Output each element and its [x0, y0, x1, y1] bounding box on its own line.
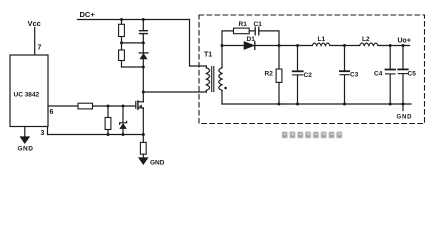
- svg-text:C1: C1: [254, 21, 263, 28]
- wire cap branch top: [142, 20, 144, 31]
- wire cap to cross: [142, 34, 144, 53]
- wire pin3 stub: [47, 127, 49, 135]
- svg-text:T1: T1: [204, 52, 212, 59]
- svg-text:R2: R2: [265, 71, 274, 78]
- wire left branch bottom: [121, 61, 123, 68]
- capacitor C3: [340, 70, 349, 72]
- wire sense to gnd: [142, 154, 144, 158]
- ground under IC: [21, 137, 29, 143]
- wire Vcc to pin 7: [34, 28, 36, 56]
- wire output gnd stub: [402, 104, 404, 111]
- node cross mid left: [120, 41, 123, 44]
- resistor R1: [234, 28, 250, 34]
- svg-text:DC+: DC+: [80, 10, 96, 19]
- wire pulldown bottom: [107, 130, 109, 135]
- svg-text:GND: GND: [18, 146, 34, 153]
- node snubber right top: [142, 18, 145, 21]
- wire secondary top: [221, 46, 223, 68]
- capacitor C2: [293, 70, 303, 72]
- node drain-transformer junction: [142, 91, 145, 94]
- node secondary polarity dot: [224, 87, 227, 90]
- transistor Q1 MOSFET: [135, 102, 137, 109]
- wire L1 to C3 node: [330, 45, 360, 47]
- node rail junction A: [107, 133, 110, 136]
- svg-text:Vcc: Vcc: [28, 19, 41, 28]
- wire clamp cross mid: [122, 42, 144, 44]
- wire left branch top: [121, 20, 123, 25]
- svg-text:Uo+: Uo+: [398, 38, 411, 45]
- inductor L1: [312, 43, 330, 45]
- wire IC gnd stub: [24, 127, 26, 138]
- wire L2 to output: [378, 45, 410, 47]
- diode D1: [244, 42, 254, 50]
- wire drain vertical: [142, 67, 144, 102]
- wire pin6 gate drive: [48, 105, 78, 107]
- svg-text:C4: C4: [374, 71, 383, 78]
- capacitor C5: [398, 68, 407, 70]
- resistor R gate pulldown: [105, 118, 111, 130]
- wire DC+ down right: [190, 20, 207, 67]
- wire C2 bottom: [297, 75, 299, 104]
- wire C5 top: [402, 46, 404, 69]
- resistor R current sense: [140, 142, 146, 154]
- wire diode bottom: [142, 59, 144, 67]
- wire source down: [142, 108, 144, 135]
- wire C3 top: [344, 46, 346, 71]
- wire left branch mid: [121, 37, 123, 51]
- node R2 bottom junction: [278, 103, 281, 106]
- svg-text:6: 6: [50, 109, 54, 116]
- wire sense rail: [48, 134, 144, 136]
- node rectifier input junction: [221, 44, 224, 47]
- wire R1 to C1: [249, 30, 255, 32]
- wire gate: [93, 105, 136, 107]
- node C2 bottom junction: [296, 103, 299, 106]
- wire C4 bottom: [389, 74, 391, 104]
- capacitor clamp: [140, 30, 148, 32]
- wire D1 to node: [255, 45, 312, 47]
- node C5 top junction: [402, 44, 405, 47]
- ground under sense resistor: [139, 158, 147, 164]
- inductor L2: [360, 43, 378, 45]
- transformer T1 secondary winding: [219, 68, 222, 91]
- node cross mid right: [142, 41, 145, 44]
- svg-text:L2: L2: [362, 36, 370, 43]
- svg-text:R1: R1: [239, 21, 248, 28]
- zener diode gate clamp: [120, 121, 127, 124]
- wire to D1: [222, 45, 244, 47]
- node rail junction B: [122, 133, 125, 136]
- capacitor C1: [254, 27, 256, 35]
- svg-text:GND: GND: [150, 160, 165, 167]
- wire clamp cross bottom: [122, 66, 144, 68]
- svg-text:GND: GND: [397, 115, 413, 121]
- node cross bottom right: [142, 66, 145, 69]
- wire C3 bottom: [344, 75, 346, 104]
- diode clamp: [139, 52, 148, 54]
- wire R2 bottom: [278, 82, 280, 104]
- wire secondary bottom: [221, 90, 223, 104]
- wire C4 top: [389, 46, 391, 70]
- node D1 output junction: [278, 44, 281, 47]
- wire output bottom rail: [222, 103, 411, 105]
- node C4 bottom junction: [389, 103, 392, 106]
- dashed output section box: [199, 15, 425, 124]
- wire R2 top: [278, 46, 280, 70]
- resistor clamp lower: [119, 50, 125, 61]
- resistor clamp upper: [119, 24, 125, 36]
- wire zener bottom: [122, 129, 124, 135]
- transformer T1 primary winding: [206, 68, 209, 91]
- wire pulldown top: [107, 106, 109, 118]
- svg-text:L1: L1: [318, 36, 326, 43]
- svg-text:C2: C2: [304, 72, 313, 79]
- wire snubber branch up: [222, 31, 234, 46]
- node rail junction source: [142, 133, 145, 136]
- svg-text:D1: D1: [247, 36, 256, 43]
- svg-text:7: 7: [38, 45, 42, 52]
- node C5 bottom junction: [402, 103, 405, 106]
- node C2 top junction: [296, 44, 299, 47]
- node snubber left top: [120, 18, 123, 21]
- transformer core: [211, 67, 213, 92]
- node C3 top junction: [343, 44, 346, 47]
- svg-text:UC 3842: UC 3842: [14, 92, 40, 99]
- node C3 bottom junction: [343, 103, 346, 106]
- svg-text:C5: C5: [408, 71, 417, 78]
- node C4 top junction: [389, 44, 392, 47]
- wire source to sense resistor: [142, 135, 144, 143]
- wire DC+ rail: [77, 19, 189, 21]
- node gate junction A: [107, 105, 110, 108]
- op-amp U1 UC3842 box: [10, 55, 48, 127]
- node gate junction B: [122, 105, 125, 108]
- svg-text:3: 3: [41, 130, 45, 137]
- wire drain to transformer primary bottom: [143, 91, 206, 93]
- svg-text:C3: C3: [350, 71, 359, 78]
- wire C1 to node: [259, 31, 279, 46]
- wire C2 top: [297, 46, 299, 71]
- wire C5 bottom: [402, 74, 404, 104]
- wire zener top: [122, 106, 124, 123]
- capacitor C4: [386, 69, 396, 71]
- resistor R2: [276, 69, 282, 82]
- wire primary top stub: [205, 66, 207, 68]
- wire primary bottom stub: [205, 90, 207, 92]
- resistor R gate series: [78, 103, 93, 109]
